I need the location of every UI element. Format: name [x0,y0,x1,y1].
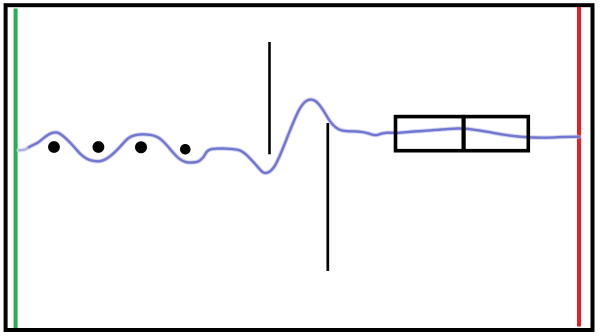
dot 1 [48,141,60,153]
blue wave halo [19,100,579,173]
double box left cell [396,117,464,151]
dot 3 [135,141,147,153]
wave faint start [19,149,27,150]
dot 2 [93,141,105,153]
blue wave [19,100,579,173]
box divider emphasis [462,115,466,152]
lower barrier line [326,123,329,271]
upper barrier line [268,42,271,154]
red end line [577,7,581,327]
green start line [14,9,18,329]
dot 4 [180,144,191,155]
double box right cell [464,117,529,151]
